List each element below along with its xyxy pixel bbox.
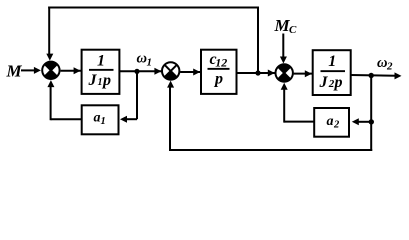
svg-text:1: 1 <box>101 116 106 127</box>
svg-text:M: M <box>6 62 23 81</box>
svg-text:J: J <box>88 72 98 89</box>
svg-text:12: 12 <box>215 56 227 70</box>
svg-text:ω: ω <box>137 50 148 66</box>
svg-text:1: 1 <box>97 53 105 70</box>
svg-text:a: a <box>327 114 334 129</box>
svg-text:p: p <box>101 72 111 89</box>
svg-text:1: 1 <box>98 77 103 88</box>
svg-text:a: a <box>94 111 101 126</box>
svg-text:2: 2 <box>386 61 393 73</box>
svg-text:2: 2 <box>333 120 340 131</box>
svg-text:1: 1 <box>147 57 153 69</box>
svg-text:p: p <box>213 71 223 88</box>
svg-text:1: 1 <box>328 53 336 70</box>
svg-text:ω: ω <box>377 55 388 71</box>
svg-text:M: M <box>274 16 291 35</box>
svg-text:p: p <box>333 74 343 91</box>
svg-text:J: J <box>319 74 329 91</box>
svg-text:C: C <box>289 24 297 36</box>
